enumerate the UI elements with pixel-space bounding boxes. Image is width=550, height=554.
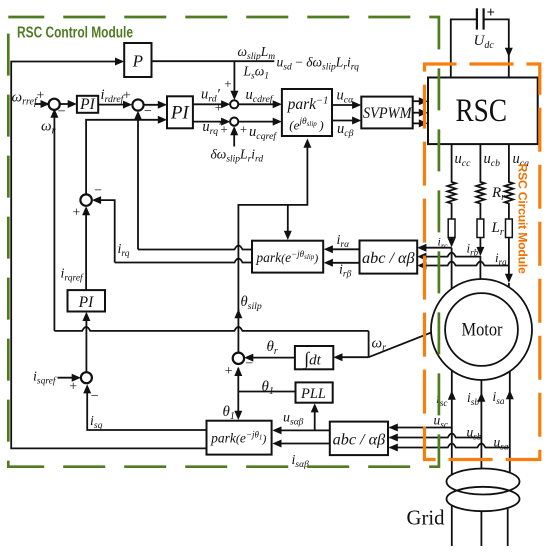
svg-text:+: + <box>123 89 131 104</box>
block park inverse transform U1 <box>282 89 332 136</box>
svg-text:RSC Circuit Module: RSC Circuit Module <box>516 164 530 275</box>
wire u_sa tap to abc2 <box>390 444 510 448</box>
svg-text:RSC: RSC <box>456 93 508 129</box>
wire i_r_alpha abc to park <box>326 248 359 250</box>
block PI1 (speed controller) <box>77 96 98 113</box>
wire omega_r feedback long line to S1 <box>54 327 368 331</box>
wire capacitor left plate to RSC <box>451 19 477 77</box>
transformer winding lower <box>447 487 520 511</box>
resistor R_r phase b <box>476 144 484 219</box>
wire i_r_beta abc to park <box>326 262 359 264</box>
block park transform stator U3 <box>207 421 272 455</box>
wire SVPWM to RSC gate signal 2 <box>413 112 426 114</box>
wire i_sq park output to S5 minus input <box>87 387 206 430</box>
inductor L_r phase b <box>477 219 484 238</box>
wire S2 to PI2 upper input <box>144 104 165 106</box>
motor inner circle <box>445 293 518 366</box>
wire rotor phase b down to motor <box>479 256 481 280</box>
wire dw_slip*Lr*i_rd compensation into S7 <box>233 128 235 146</box>
inductor L_r phase c <box>448 219 455 238</box>
wire i_sd outer feedback loop (park bottom output to P input) <box>11 62 206 449</box>
wire i_rd park output to S2 minus input <box>138 246 252 250</box>
summing junction S4 (theta_slip = theta_1 - theta_r) <box>233 353 244 364</box>
svg-text:SVPWM: SVPWM <box>363 105 412 122</box>
resistor R_r phase a <box>505 144 513 219</box>
block abc to alpha-beta transform (rotor current) <box>360 241 418 274</box>
block PI2 (current controller) <box>167 96 193 128</box>
wire theta_r integrator to S4 <box>247 357 295 359</box>
wire stator phase c motor to transformer <box>451 370 453 475</box>
motor outer circle <box>431 279 532 380</box>
svg-text:∫dt: ∫dt <box>303 349 321 370</box>
wire grid phase a <box>507 507 509 546</box>
svg-text:P: P <box>132 52 143 71</box>
svg-text:Motor: Motor <box>462 320 503 340</box>
wire stator phase b motor to transformer <box>480 380 482 469</box>
summing junction S1 (speed error) <box>49 99 60 110</box>
summing junction S5 (stator q current error) <box>81 372 92 383</box>
svg-text:−: − <box>91 389 99 404</box>
wire capacitor right plate to RSC with arrow <box>484 19 509 77</box>
svg-text:Grid: Grid <box>407 506 445 530</box>
wire P output / fraction bar with branch down to sum u_cdref <box>152 60 275 62</box>
wire u_cdref S6 to park inverse <box>238 103 279 105</box>
block RSC converter <box>428 78 538 145</box>
summing junction S3 (q-axis current error) <box>80 194 91 205</box>
wire theta_1 PLL output with branches <box>238 391 295 393</box>
wire grid phase c <box>451 505 453 546</box>
svg-text:+: + <box>72 206 80 221</box>
summing junction S2 (d-axis current error) <box>132 99 143 110</box>
wire stator phase a motor to transformer <box>509 371 511 473</box>
wire SVPWM to RSC gate signal 3 <box>413 122 426 124</box>
block PLL <box>296 382 333 402</box>
svg-text:abc / αβ: abc / αβ <box>333 431 386 449</box>
capacitor C_dc plates <box>476 8 478 29</box>
wire u_s_alphabeta abc2 to park3 with PLL tap <box>275 429 330 431</box>
svg-text:PLL: PLL <box>300 386 326 402</box>
wire rotor phase c tap to abc block <box>451 238 453 244</box>
wire u_sc tap to abc2 <box>390 427 452 429</box>
block P (power controller) <box>124 43 151 77</box>
block abc to alpha-beta transform (stator) <box>330 422 388 456</box>
svg-text:abc / αβ: abc / αβ <box>362 249 415 267</box>
svg-text:−: − <box>144 104 152 119</box>
wire u_c_alpha to SVPWM <box>332 104 359 106</box>
svg-text:+: + <box>240 122 247 137</box>
summing junction S7 (u_cqref) <box>230 118 238 126</box>
wire rotor phase b tap to abc block <box>479 238 481 253</box>
wire rotor phase c down to motor <box>451 248 453 290</box>
svg-text:+: + <box>215 100 222 115</box>
block SVPWM modulator <box>361 97 412 129</box>
wire i_rqref PI3 to S3 <box>85 209 87 290</box>
svg-text:+: + <box>220 122 227 137</box>
svg-text:+: + <box>224 76 231 91</box>
wire i_s_alphabeta abc2 to park3 <box>275 443 330 445</box>
orange dashed border RSC Circuit Module box <box>425 64 540 460</box>
wire rotor phase a down to motor with arrow <box>508 238 510 280</box>
wire u_rq' PI2 to sum S7 <box>193 121 228 123</box>
transformer winding upper <box>447 469 520 495</box>
wire S5 output to PI3 <box>85 315 87 373</box>
svg-text:+: + <box>69 380 77 395</box>
svg-text:−: − <box>94 184 102 199</box>
resistor R_r phase c <box>447 144 455 219</box>
svg-text:PI: PI <box>170 103 191 124</box>
wire omega_rref into sum S1 <box>35 103 48 105</box>
wire SVPWM to RSC gate signal 1 <box>413 100 426 102</box>
svg-text:−: − <box>245 357 253 372</box>
wire rotor phase a tap to abc block <box>420 262 509 266</box>
wire u_cqref S7 to park inverse <box>238 121 279 123</box>
svg-text:RSC Control Module: RSC Control Module <box>17 25 133 42</box>
block integrator 1/s <box>295 346 333 369</box>
wire S1 to PI1 <box>59 103 74 105</box>
wire i_rq park output to S3 minus input <box>115 259 252 263</box>
inductor L_r phase a <box>506 219 513 238</box>
wire u_rd' PI2 to sum S6 <box>193 103 228 105</box>
svg-text:+: + <box>487 5 495 21</box>
svg-text:PI: PI <box>78 294 94 311</box>
summing junction S6 (u_cdref) <box>230 100 238 108</box>
svg-text:PI: PI <box>79 96 95 113</box>
wire u_c_beta to SVPWM <box>332 120 359 122</box>
green dashed border RSC Control Module box <box>8 17 439 467</box>
wire theta_slip from S4 up to park blocks <box>237 309 239 353</box>
wire i_rdref PI1 to sum S2 <box>98 104 129 106</box>
block PI3 (q current controller) <box>68 290 106 311</box>
block park transform rotor current U2 <box>252 241 323 273</box>
wire i_sqref into S5 <box>58 377 79 379</box>
wire omega_r shaft diagonal from motor <box>369 327 446 357</box>
wire omega_r into integrator <box>336 356 369 358</box>
wire u_sb tap to abc2 <box>390 434 482 438</box>
wire S3 output to PI2 lower input <box>86 120 164 195</box>
wire grid phase b <box>480 511 482 546</box>
svg-text:−: − <box>58 105 66 120</box>
svg-text:+: + <box>225 364 233 379</box>
